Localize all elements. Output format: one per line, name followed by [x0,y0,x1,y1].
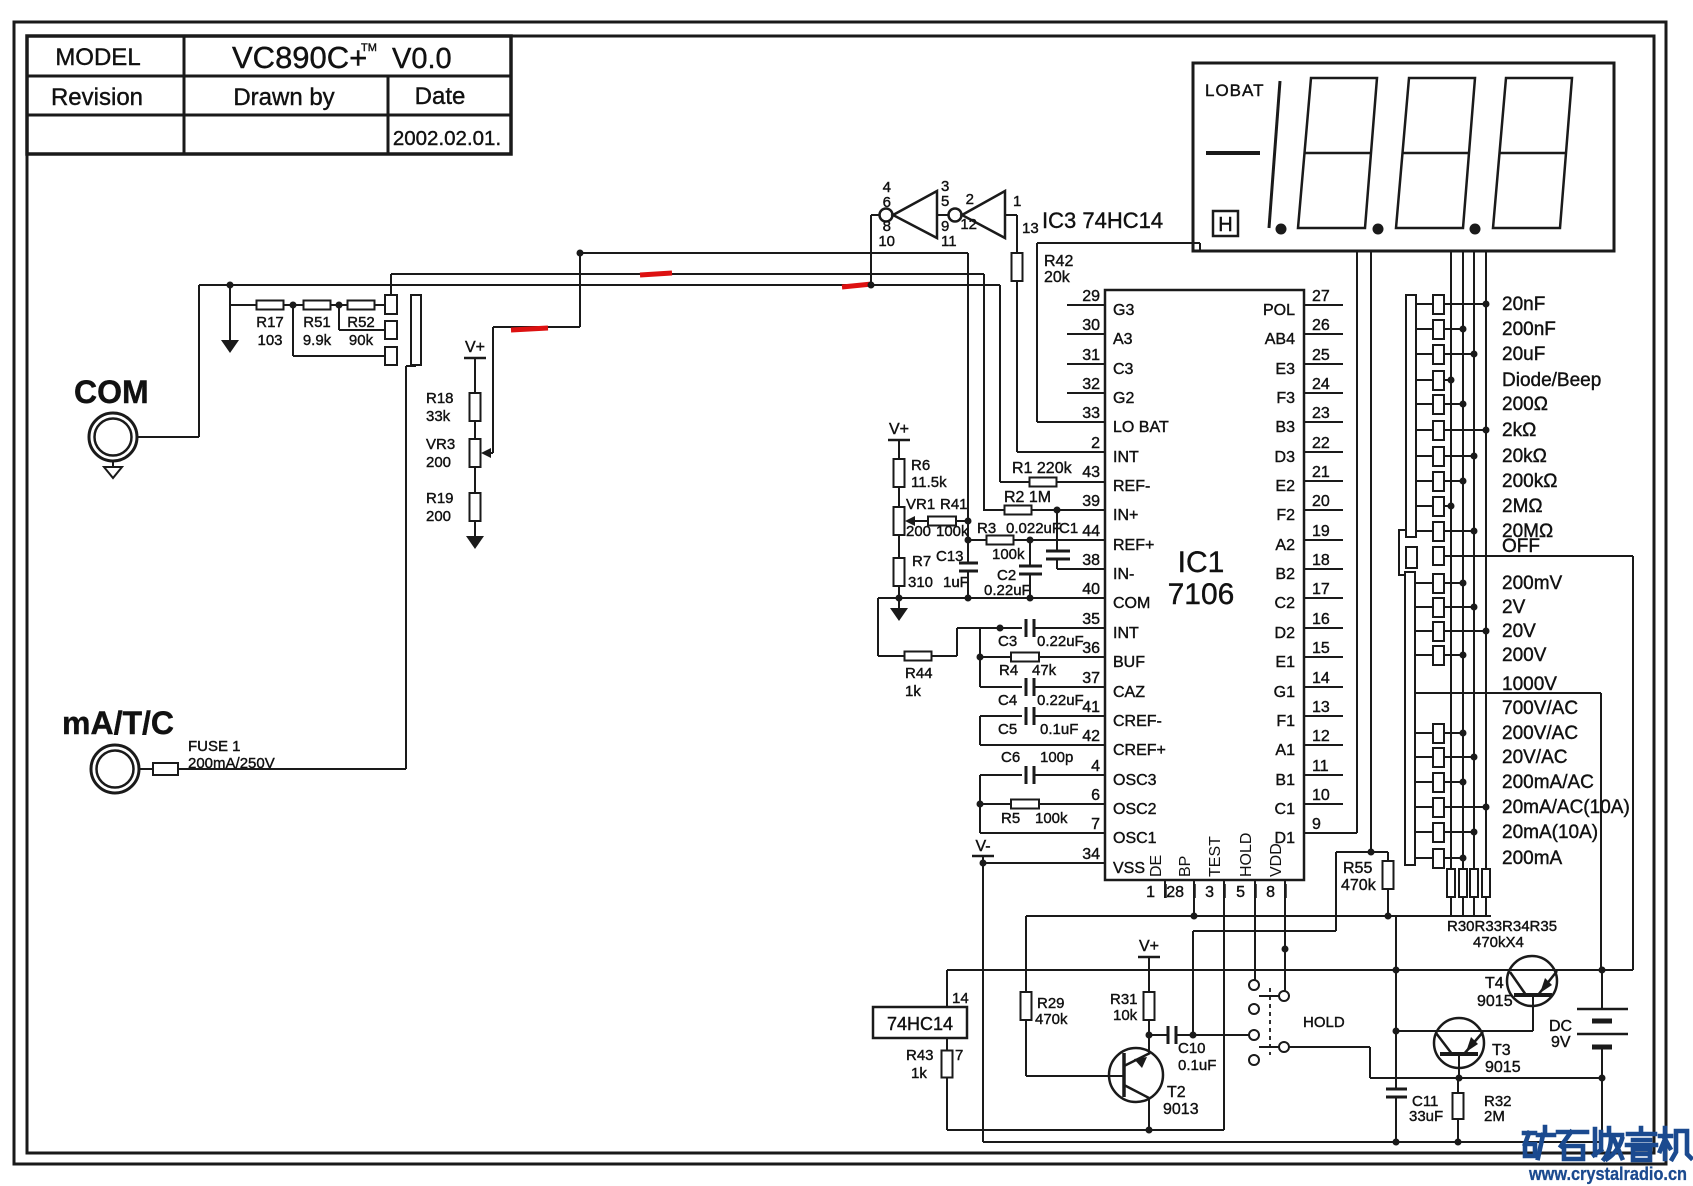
wire contact 200k&#937; to bus [1444,480,1463,482]
wire emitter rail horizontal [1370,1077,1602,1079]
junction [1460,855,1467,862]
svg-text:1000V: 1000V [1502,674,1557,695]
wire to contact S1b [339,329,385,331]
watermark logo (CJK strokes) [1524,1127,1691,1160]
wire R35 to rail [1485,897,1487,916]
T3 slant right [1464,1032,1483,1054]
wire contact 200mA to bus [1444,857,1463,859]
svg-text:F2: F2 [1276,507,1295,524]
svg-text:B3: B3 [1275,419,1295,436]
wire [230,304,257,306]
junction [1599,1075,1606,1082]
svg-text:20uF: 20uF [1502,344,1545,365]
svg-text:2kΩ: 2kΩ [1502,420,1536,441]
wire IC1 pin 1 DE [1164,880,1166,898]
wire OFF contact to right run [1444,555,1633,557]
wire contact 20k&#937; to bus [1444,455,1474,457]
wire C4 to pin37 [1034,686,1105,688]
svg-text:T3: T3 [1492,1042,1511,1059]
svg-text:T4: T4 [1485,975,1504,992]
wire IC1 pin 32 stub [1067,392,1105,394]
transistor T4 9015 (PNP) [1507,956,1557,1006]
wire COM jack to riser [137,436,199,438]
inverter IC3B output bubble [949,209,962,222]
wire T3 emitter [1458,1054,1460,1078]
svg-text:20: 20 [1312,493,1330,510]
wire pin34 VSS row [983,862,1105,864]
wire IC1 pin 12 stub [1304,744,1343,746]
svg-text:BUF: BUF [1113,654,1145,671]
junction [1460,580,1467,587]
svg-text:470kX4: 470kX4 [1473,934,1524,951]
junction R17/R51 [290,302,297,309]
resistor R3 [987,536,1014,545]
svg-text:12: 12 [960,216,977,233]
switch contact 200mV [1433,574,1444,593]
svg-text:OFF: OFF [1502,536,1540,557]
svg-text:Date: Date [415,83,466,110]
wire R55 to V+ rail [1387,889,1389,916]
junction [1393,967,1400,974]
svg-text:0.1uF: 0.1uF [1178,1057,1216,1074]
wire contact 2V to bus [1444,606,1474,608]
svg-text:33uF: 33uF [1409,1108,1443,1125]
svg-text:200nF: 200nF [1502,319,1556,340]
wire bottom ground run [947,1129,1224,1131]
svg-text:200Ω: 200Ω [1502,394,1548,415]
svg-text:TEST: TEST [1207,836,1224,877]
wire C3 to pin35 [1034,627,1105,629]
svg-text:21: 21 [1312,464,1330,481]
svg-text:9013: 9013 [1163,1101,1199,1118]
junction [1460,401,1467,408]
wire IC3B out to IC3A in [937,214,948,216]
wire rotor to contact [1416,606,1433,608]
svg-text:43: 43 [1082,464,1100,481]
svg-text:R7: R7 [912,553,931,570]
wire contact 200mA/AC to bus [1444,781,1463,783]
junction VSS/V- [980,860,987,867]
wire INT row [1000,627,1022,629]
svg-text:200mA/AC: 200mA/AC [1502,772,1594,793]
switch contact 20V/AC [1433,748,1444,767]
svg-text:14: 14 [952,990,969,1007]
op-amp/inverter IC3A 74HC14 [893,191,937,238]
svg-text:V+: V+ [1139,938,1159,955]
LCD decimal point [1276,224,1287,235]
svg-text:4: 4 [1091,758,1100,775]
svg-text:310: 310 [908,574,933,591]
svg-text:39: 39 [1082,493,1100,510]
capacitor C3 [1025,619,1028,637]
red correction mark 2 [842,284,872,287]
wire 74HC14 pin7 [946,1038,948,1051]
wire [980,627,1000,629]
resistor R35 470k [1482,869,1490,897]
wire contact Diode/Beep to bus [1444,379,1451,381]
wire contact 2k&#937; to bus [1444,429,1486,431]
svg-text:VDD: VDD [1268,843,1285,877]
wire LCD segment bus vertical [1473,251,1475,869]
ground arrow left [221,340,239,353]
svg-text:200V/AC: 200V/AC [1502,723,1578,744]
svg-text:AB4: AB4 [1265,331,1295,348]
switch contact 200mA [1433,849,1444,868]
switch rotor bar S2 upper [1406,295,1416,537]
svg-text:C10: C10 [1178,1040,1206,1057]
svg-text:42: 42 [1082,728,1100,745]
resistor R55 [1383,861,1394,889]
wire contact 20uF to bus [1444,353,1474,355]
svg-text:200kΩ: 200kΩ [1502,471,1557,492]
svg-text:13: 13 [1312,699,1330,716]
wire net REF- (COM to R1) horizontal [199,284,1000,286]
wire V+ rail horizontal [947,969,1633,971]
wire C2 to REF+ net [1029,540,1031,566]
svg-text:200mV: 200mV [1502,573,1563,594]
svg-text:1: 1 [1013,193,1021,210]
wire rotor to contact [1416,630,1433,632]
svg-text:7: 7 [1091,816,1100,833]
junction [1455,1139,1462,1146]
T2 emitter slant [1124,1085,1149,1098]
ground arrow center [890,608,908,621]
svg-text:INT: INT [1113,449,1139,466]
wire C1 to IN- [1056,559,1058,569]
wire IC1 pin 8 VDD [1284,880,1286,992]
wire VR3 wiper vertical [492,327,494,453]
wire IC1 pin 29 stub [1067,304,1105,306]
junction [1385,913,1392,920]
junction [1471,528,1478,535]
svg-text:C1: C1 [1275,801,1296,818]
wire R34 to rail [1473,897,1475,916]
switch contact 200V [1433,646,1444,665]
svg-text:C6: C6 [1001,749,1020,766]
svg-text:R29: R29 [1037,995,1065,1012]
svg-text:V0.0: V0.0 [392,43,452,75]
switch HOLD contact [1249,980,1259,990]
svg-text:HOLD: HOLD [1238,833,1255,877]
junction IC3A to REF- net [868,282,875,289]
switch contact OFF [1433,547,1444,565]
wire IC1 pin 27 stub [1304,304,1343,306]
wire LCD segment bus vertical [1462,251,1464,869]
red correction mark 1 [640,273,672,275]
svg-text:90k: 90k [349,332,374,349]
LCD digit 4 seven-segment outline [1493,78,1572,228]
wire HOLD pole2 out [1289,1046,1370,1048]
wire rotor to contact [1416,505,1433,507]
wire contact 20M&#937; to bus [1444,530,1474,532]
wire R51/R52 junction down [338,305,340,330]
wire oscillator loop bus [979,775,981,833]
wire VR3 riser vertical [579,253,581,327]
svg-text:9.9k: 9.9k [303,332,332,349]
wire to analog ground [229,305,231,340]
svg-text:REF-: REF- [1113,478,1150,495]
junction T2 emitter [1146,1127,1153,1134]
junction [1448,503,1455,510]
svg-text:R4: R4 [999,662,1018,679]
wire rotor to contact [1416,353,1433,355]
svg-text:HOLD: HOLD [1303,1014,1345,1031]
wire C2 to COM net [1029,574,1031,598]
junction [965,595,972,602]
svg-text:3: 3 [1205,884,1214,901]
wire contact 20mA(10A) to bus [1444,831,1474,833]
wire down to C10 node [1192,931,1194,1035]
wire R30 to rail [1450,897,1452,916]
red correction mark 3 [511,328,548,330]
svg-text:27: 27 [1312,288,1330,305]
svg-text:470k: 470k [1035,1011,1068,1028]
junction [1471,829,1478,836]
svg-text:34: 34 [1082,846,1100,863]
T3 arrow [1466,1037,1478,1052]
svg-text:VR3: VR3 [426,436,455,453]
junction [1448,377,1455,384]
switch contact S1c [385,347,397,365]
svg-text:C2: C2 [1275,595,1296,612]
wire integrator loop bus [979,628,981,687]
svg-text:G1: G1 [1274,684,1295,701]
svg-text:C4: C4 [998,692,1017,709]
wire IC1 pin 21 stub [1304,480,1343,482]
battery plate long 2 [1577,1033,1628,1036]
wire fuse riser vertical [405,366,407,769]
svg-text:FUSE 1: FUSE 1 [188,738,241,755]
svg-text:B1: B1 [1275,772,1295,789]
VR1 wiper arrow [908,520,928,522]
svg-text:24: 24 [1312,376,1330,393]
svg-text:18: 18 [1312,552,1330,569]
svg-text:17: 17 [1312,581,1330,598]
svg-text:R5: R5 [1001,810,1020,827]
op-amp/inverter IC3B 74HC14 [962,191,1005,238]
wire IC1 pin 14 stub [1304,686,1343,688]
svg-text:38: 38 [1082,552,1100,569]
wire to C11 [1395,1031,1397,1089]
switch rotor bar S1 [411,295,421,365]
wire contact 20nF to bus [1444,303,1486,305]
svg-text:5: 5 [1236,884,1245,901]
svg-text:R6: R6 [911,457,930,474]
svg-text:0.022uF: 0.022uF [1006,520,1061,537]
svg-text:LO BAT: LO BAT [1113,419,1169,436]
svg-text:8: 8 [1266,884,1275,901]
wire contact 200V to bus [1444,654,1463,656]
switch contact 20uF [1433,345,1444,364]
svg-text:30: 30 [1082,317,1100,334]
wire R42 to IC1 pin 2 vertical [1016,281,1018,452]
wire C13 to COM net [967,571,969,598]
svg-text:37: 37 [1082,670,1100,687]
resistor R18 [470,393,481,421]
junction [1456,1075,1463,1082]
resistor R31 [1144,992,1155,1020]
wire rotor to contact [1416,403,1433,405]
wire 700V/AC vertical to battery node [1600,693,1602,970]
wire IC1 pin 15 stub [1304,656,1343,658]
capacitor C4 [1025,678,1028,696]
wire IC1 pin 9 stub [1304,832,1357,834]
T4 arrow [1540,978,1552,993]
wire R32 bottom [1457,1119,1459,1142]
switch contact 2k&#937; [1433,421,1444,440]
wire contact 20V to bus [1444,630,1486,632]
switch rotor bar S2 lower [1405,572,1415,865]
junction [1460,779,1467,786]
wire rotor to contact [1416,379,1433,381]
svg-text:20nF: 20nF [1502,294,1545,315]
wire rotor to contact [1416,756,1433,758]
wire riser to rotor bar [406,365,416,367]
wire rotor to contact [1416,831,1433,833]
VR3 wiper arrow [484,452,493,454]
switch HOLD linkage dashed [1269,988,1271,1055]
wire contact 2M&#937; to bus [1444,505,1451,507]
junction R31/C10/T2 [1146,1032,1153,1039]
wire pin33 LO BAT stub [1037,421,1105,423]
svg-text:G3: G3 [1113,302,1134,319]
transistor T2 9013 (NPN) [1109,1048,1163,1102]
wire VR1 to R7 [898,535,900,558]
svg-text:200mA: 200mA [1502,848,1563,869]
wire rail BP/R55 horizontal [1026,915,1491,917]
wire rotor to contact [1416,328,1433,330]
switch contact 20nF [1433,295,1444,314]
svg-text:6: 6 [1091,787,1100,804]
junction [1460,730,1467,737]
svg-text:R19: R19 [426,490,454,507]
svg-text:20V: 20V [1502,621,1536,642]
wire IC1 pin 20 stub [1304,509,1343,511]
svg-text:2M: 2M [1484,1108,1505,1125]
wire to R2 [984,509,1004,511]
wire rotor to contact [1416,732,1433,734]
junction [1471,604,1478,611]
wire R18 to VR3 [474,421,476,439]
svg-text:A2: A2 [1275,537,1295,554]
wire IC1 pin 17 stub [1304,597,1343,599]
svg-text:100p: 100p [1040,749,1073,766]
svg-text:R2 1M: R2 1M [1004,489,1051,506]
potentiometer VR1 [894,507,905,535]
svg-text:OSC1: OSC1 [1113,830,1157,847]
svg-text:13: 13 [1022,220,1039,237]
junction R41/REF+ [965,518,972,525]
wire R32 top [1457,1078,1459,1093]
wire IC1 pin 5 HOLD [1254,880,1256,981]
wire rotor to contact [1416,582,1433,584]
wire rotor to contact [1416,429,1433,431]
svg-text:20V/AC: 20V/AC [1502,747,1567,768]
wire rotor to contact [1416,806,1433,808]
wire 74HC14 pin14 to V+ rail [946,970,948,1007]
wire to R1 [1000,481,1030,483]
LCD hold annunciator H [1213,211,1238,236]
svg-text:32: 32 [1082,376,1100,393]
svg-text:VC890C+: VC890C+ [232,40,367,75]
svg-text:23: 23 [1312,405,1330,422]
junction C1/R2 [1054,507,1061,514]
junction [1190,1032,1197,1039]
wire contact 200&#937; to bus [1444,403,1463,405]
wire to R44 [878,655,904,657]
wire IC1 pin 18 stub [1304,568,1343,570]
svg-text:CAZ: CAZ [1113,684,1145,701]
svg-text:V+: V+ [889,421,909,438]
svg-text:VR1: VR1 [906,496,935,513]
wire LCD segment bus vertical [1450,251,1452,869]
T2 collector arrow [1134,1057,1147,1068]
wire IC1 pin 13 stub [1304,715,1343,717]
wire HOLD pole2 arm [1259,1046,1279,1048]
wire to INT pin35 net [957,627,1000,629]
svg-text:35: 35 [1082,611,1100,628]
svg-text:15: 15 [1312,640,1330,657]
wire T2 emitter [1148,1098,1150,1130]
wire down to battery rail [1369,1047,1371,1078]
capacitor C5 [1025,707,1028,725]
switch HOLD contact [1249,1030,1259,1040]
wire IC1 pin 3 TEST [1223,880,1225,1130]
switch HOLD contact [1249,1055,1259,1065]
junction [1460,326,1467,333]
switch contact 20mA(10A) [1433,823,1444,842]
svg-text:44: 44 [1082,523,1100,540]
switch HOLD pole [1279,1042,1289,1052]
svg-text:16: 16 [1312,611,1330,628]
wire fuse to switch vertical run [178,768,406,770]
svg-text:V+: V+ [465,339,485,356]
inverter IC3A output bubble [880,209,893,222]
wire COM riser vertical [198,285,200,437]
svg-text:Diode/Beep: Diode/Beep [1502,370,1601,391]
svg-text:2V: 2V [1502,597,1526,618]
wire IC1 pin 10 stub [1304,803,1343,805]
svg-text:19: 19 [1312,523,1330,540]
svg-text:VSS: VSS [1113,860,1145,877]
svg-text:IN+: IN+ [1113,507,1138,524]
T4 slant left [1510,972,1526,995]
svg-text:2002.02.01.: 2002.02.01. [393,127,501,150]
battery plate short 1 [1592,1019,1612,1024]
svg-text:7: 7 [955,1047,963,1064]
svg-text:20mA/AC(10A): 20mA/AC(10A) [1502,797,1630,818]
svg-text:R52: R52 [347,314,375,331]
LCD decimal point [1470,224,1481,235]
svg-text:10: 10 [1312,787,1330,804]
wire LO BAT vertical [1036,243,1038,422]
svg-text:G2: G2 [1113,390,1134,407]
wire backplane down [1335,852,1337,931]
switch contact 200k&#937; [1433,472,1444,491]
svg-text:9V: 9V [1551,1034,1571,1051]
switch contact 200V/AC [1433,724,1444,743]
resistor R44 [905,652,932,661]
svg-text:R55: R55 [1343,860,1372,877]
wire LO BAT horizontal to LCD [1037,242,1200,244]
svg-text:41: 41 [1082,699,1100,716]
svg-text:2: 2 [966,191,974,208]
wire R17-R51 [283,304,303,306]
svg-text:2: 2 [1091,435,1100,452]
svg-text:5: 5 [941,193,949,210]
resistor R5 [1011,800,1039,809]
resistor R2 [1005,506,1032,515]
